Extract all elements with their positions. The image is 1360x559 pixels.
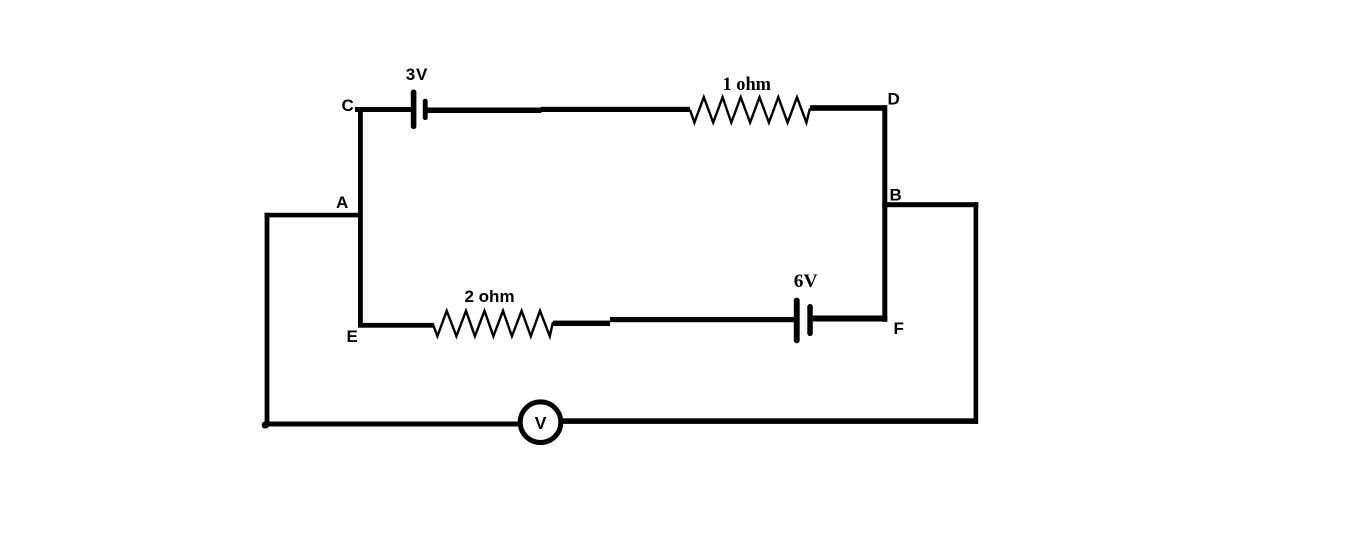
battery V2 6V long plate (794, 298, 800, 344)
wire segment: battery V2 to F (bottom branch right) (813, 316, 888, 322)
svg-text:2 ohm: 2 ohm (465, 287, 515, 306)
svg-text:6V: 6V (794, 271, 818, 292)
svg-text:1 ohm: 1 ohm (723, 74, 772, 95)
svg-text:A: A (336, 193, 348, 212)
svg-text:B: B (890, 185, 902, 204)
svg-text:3V: 3V (406, 65, 428, 84)
wire segment: C to battery V1 (top branch left) (355, 107, 412, 112)
wire segment: resistor R2 to battery V2 (bottom branch middle) (553, 321, 610, 326)
wire: right outer vertical (974, 202, 979, 424)
battery V1 3V long plate (411, 90, 417, 130)
svg-text:V: V (535, 413, 547, 433)
resistor R2 zigzag (2 ohm) (433, 311, 553, 336)
wire segment: battery V1 to resistor R1 (top branch middle) (428, 108, 542, 114)
svg-text:E: E (347, 327, 358, 346)
wire: bottom outer left (corner to voltmeter) (265, 422, 521, 427)
resistor R1 zigzag (1 ohm) (690, 97, 810, 122)
wire segment: resistor R1 to D (top branch right) (810, 105, 887, 111)
svg-text:F: F (894, 319, 904, 338)
wire: left outer vertical (265, 213, 270, 427)
wire: bottom outer right (voltmeter to right corner) (563, 418, 978, 424)
wire: B to right outer vertical (882, 202, 978, 207)
wire: left inner vertical C-A-E (358, 107, 363, 328)
wire segment: E to resistor R2 (bottom branch left) (358, 323, 434, 328)
svg-text:C: C (342, 96, 354, 115)
svg-text:D: D (888, 90, 900, 109)
wire: right inner vertical D-B-F (882, 105, 887, 322)
battery V1 3V short plate (423, 99, 428, 120)
junction blob at bottom-left corner (262, 422, 269, 429)
wire: A to left outer vertical (265, 213, 363, 218)
voltmeter U1 circle (520, 402, 561, 443)
battery V2 6V short plate (807, 304, 813, 336)
